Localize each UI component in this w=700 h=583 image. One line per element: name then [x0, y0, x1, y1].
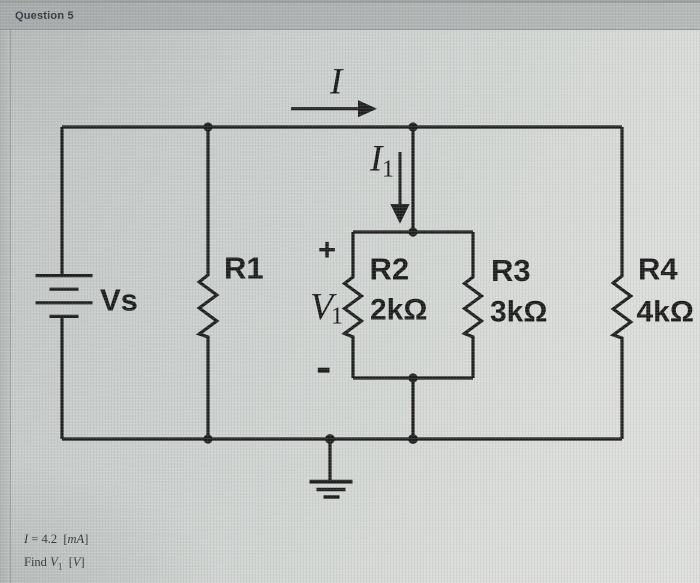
svg-text:R3: R3	[491, 253, 531, 288]
svg-text:R2: R2	[370, 252, 410, 287]
svg-text:R4: R4	[638, 252, 678, 287]
svg-text:4kΩ: 4kΩ	[637, 296, 694, 329]
svg-text:1: 1	[382, 157, 394, 183]
svg-text:I: I	[329, 62, 344, 103]
svg-text:3kΩ: 3kΩ	[490, 296, 547, 329]
svg-text:2kΩ: 2kΩ	[370, 294, 427, 327]
svg-text:Vs: Vs	[100, 283, 138, 318]
svg-text:1: 1	[331, 304, 343, 330]
svg-text:R1: R1	[224, 251, 264, 286]
svg-text:+: +	[318, 232, 336, 267]
